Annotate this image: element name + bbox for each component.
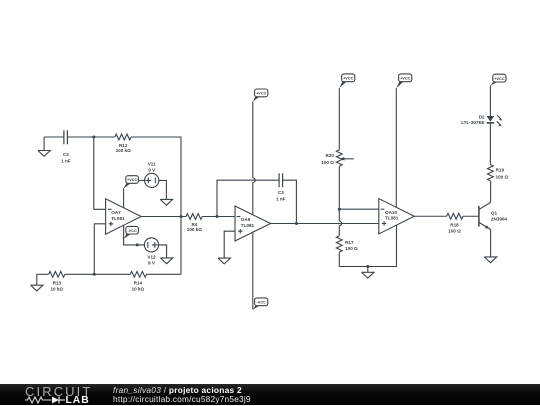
svg-text:R18: R18 xyxy=(450,223,459,228)
svg-text:C3: C3 xyxy=(278,190,284,195)
svg-text:R19: R19 xyxy=(496,168,505,173)
svg-text:V12: V12 xyxy=(147,254,156,259)
svg-text:10 kΩ: 10 kΩ xyxy=(50,286,63,291)
svg-text:TL081: TL081 xyxy=(241,223,255,228)
capacitor C3 xyxy=(276,173,286,201)
wire: feedback to C3 xyxy=(217,180,279,216)
svg-text:100 kΩ: 100 kΩ xyxy=(187,227,202,232)
wire: OA10 V+ xyxy=(395,88,397,207)
svg-text:+VCC: +VCC xyxy=(494,77,504,81)
svg-text:9 V: 9 V xyxy=(148,261,156,266)
svg-text:+VCC: +VCC xyxy=(400,77,410,81)
node: OA9 output xyxy=(295,222,298,225)
wire: OA9 V- xyxy=(252,233,254,310)
wire xyxy=(339,225,396,266)
svg-text:TL081: TL081 xyxy=(111,216,125,221)
svg-text:100 kΩ: 100 kΩ xyxy=(116,148,131,153)
ground xyxy=(38,137,50,156)
transistor Q1 xyxy=(479,202,508,229)
wire xyxy=(147,273,182,275)
voltage source V11 xyxy=(145,161,159,187)
resistor R19 xyxy=(488,165,509,181)
resistor R17 xyxy=(336,236,358,252)
node: feedback divider xyxy=(93,273,96,276)
wire xyxy=(67,136,114,138)
potentiometer R20 xyxy=(321,150,354,166)
ground xyxy=(484,257,497,263)
wire xyxy=(338,88,340,150)
svg-text:R17: R17 xyxy=(345,240,354,245)
op-amp OA7 xyxy=(106,199,142,234)
svg-text:+VCC: +VCC xyxy=(343,77,353,81)
wire: OA7 V- pin xyxy=(124,225,145,245)
wire xyxy=(141,216,186,218)
svg-text:100 Ω: 100 Ω xyxy=(345,246,358,251)
flag +VCC (R20 rail) xyxy=(339,74,355,88)
wire xyxy=(202,216,235,218)
wire: OA9 out to OA10 +in xyxy=(271,223,379,225)
svg-text:D2: D2 xyxy=(479,114,485,119)
wire xyxy=(463,215,479,217)
op-amp OA10 xyxy=(379,199,414,234)
node: OA7 output xyxy=(180,215,183,218)
flag -VCC (OA9) xyxy=(253,298,268,310)
resistor R14 xyxy=(130,271,146,291)
svg-text:-VCC: -VCC xyxy=(127,229,137,233)
resistor R12 xyxy=(115,134,131,153)
wire: collector xyxy=(490,181,492,203)
svg-text:10 kΩ: 10 kΩ xyxy=(132,286,145,291)
svg-text:+VCC: +VCC xyxy=(256,92,266,96)
capacitor C2 xyxy=(61,130,71,164)
wire: OA10 out xyxy=(414,215,446,217)
svg-text:Q1: Q1 xyxy=(491,211,498,216)
svg-text:OA10: OA10 xyxy=(385,210,397,215)
wire xyxy=(37,273,49,275)
flag -VCC (OA7) xyxy=(124,226,139,238)
wire: rail with hop over +in xyxy=(339,166,341,235)
wire xyxy=(489,86,491,117)
flag +VCC (OA10 rail) xyxy=(396,74,412,88)
wire xyxy=(94,137,106,209)
resistor R18 xyxy=(447,213,463,233)
svg-text:100 Ω: 100 Ω xyxy=(321,160,334,165)
voltage source V12 xyxy=(144,238,158,266)
svg-text:OA9: OA9 xyxy=(241,217,251,222)
resistor R4 xyxy=(186,214,202,233)
wire: OA7 +input xyxy=(94,224,105,274)
wire xyxy=(65,273,130,275)
svg-text:9 V: 9 V xyxy=(148,168,156,173)
ground xyxy=(218,258,230,264)
wire xyxy=(159,180,167,199)
svg-text:+VCC: +VCC xyxy=(127,178,137,182)
svg-text:2N3904: 2N3904 xyxy=(491,217,508,222)
node xyxy=(136,243,139,246)
LED D2 xyxy=(461,114,502,126)
svg-text:OA7: OA7 xyxy=(111,210,121,215)
svg-text:V11: V11 xyxy=(148,161,156,166)
wire: OA9 V+ with hop xyxy=(253,102,255,215)
wire xyxy=(283,180,297,223)
svg-text:TL081: TL081 xyxy=(385,216,399,221)
wire: emitter to ground xyxy=(490,230,492,257)
wire xyxy=(339,208,379,210)
wire: OA9 +input to ground xyxy=(224,231,235,258)
node: OA10 -input xyxy=(338,208,341,211)
wire xyxy=(131,137,181,274)
ground xyxy=(160,199,172,205)
resistor R13 xyxy=(49,271,65,291)
node xyxy=(366,265,369,268)
svg-text:LTL-307EE: LTL-307EE xyxy=(461,120,484,125)
node: C2/R12/opamp- junction xyxy=(92,136,95,139)
svg-text:100 Ω: 100 Ω xyxy=(496,174,509,179)
wire xyxy=(44,136,64,138)
svg-text:100 Ω: 100 Ω xyxy=(448,228,461,233)
svg-text:-VCC: -VCC xyxy=(257,301,267,305)
wire: OA7 V+ pin xyxy=(123,188,125,207)
flag +VCC (OA9) xyxy=(253,89,268,102)
svg-text:1 nF: 1 nF xyxy=(276,196,286,201)
flag +VCC (LED rail) xyxy=(490,74,506,85)
svg-text:R14: R14 xyxy=(134,281,143,286)
svg-text:C2: C2 xyxy=(63,152,69,157)
wire xyxy=(138,179,144,181)
node: OA9 -input xyxy=(216,215,219,218)
svg-text:R20: R20 xyxy=(325,153,334,158)
flag +VCC (OA7) xyxy=(123,176,138,189)
ground xyxy=(362,267,374,279)
wire xyxy=(489,123,491,164)
ground xyxy=(31,274,43,291)
op-amp OA9 xyxy=(235,206,271,241)
svg-text:R13: R13 xyxy=(53,281,62,286)
ground xyxy=(160,258,172,264)
svg-text:1 nF: 1 nF xyxy=(61,159,71,164)
wire xyxy=(159,245,167,258)
